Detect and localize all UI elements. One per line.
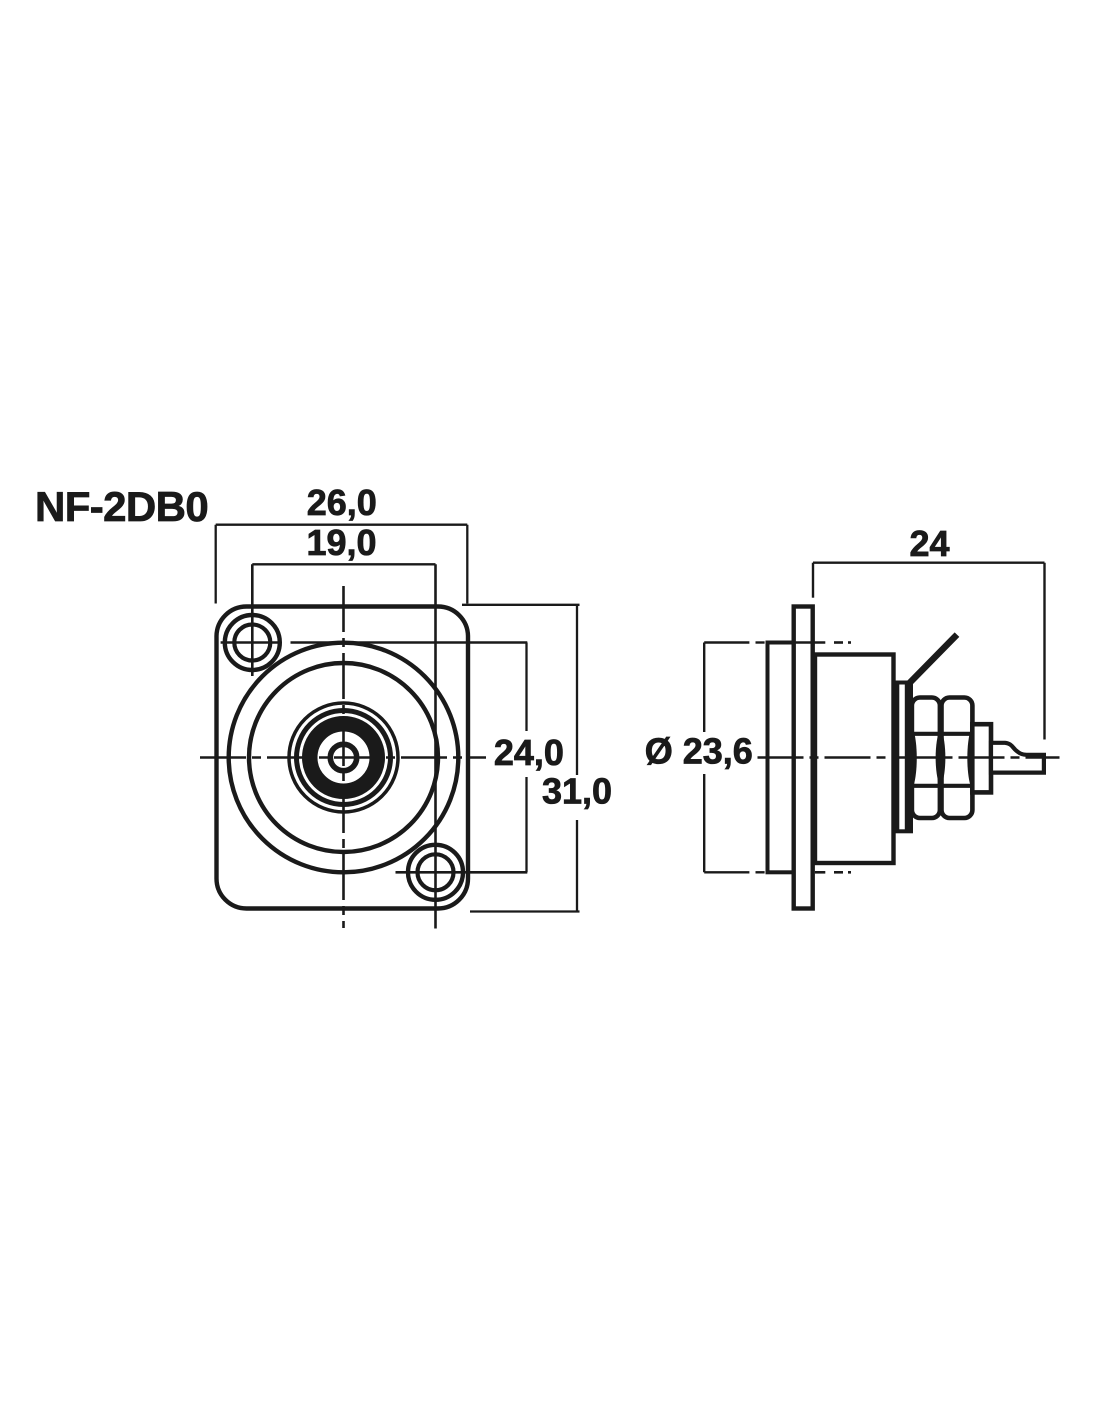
- side view centerline: [758, 756, 1060, 759]
- dimension 24,0 (front view right): [525, 643, 527, 873]
- hole TL crosshair horizontal / extension to 24.0 dim: [221, 641, 282, 644]
- svg-text:31,0: 31,0: [542, 771, 612, 812]
- dimension 19,0: [252, 563, 435, 565]
- vertical centerline: [342, 586, 345, 928]
- hole BR crosshair vertical / 19.0 extension: [434, 564, 437, 928]
- centerlines of front view: [200, 564, 527, 928]
- insulator thin ring: [289, 703, 398, 812]
- mounting hole bottom-right: [408, 845, 463, 900]
- hidden edge lines at D23.6 top/bottom: [794, 643, 851, 873]
- main body: [815, 655, 894, 864]
- serrated washer (solid black): [906, 683, 912, 832]
- svg-text:Ø 23,6: Ø 23,6: [645, 731, 753, 772]
- horizontal centerline: [200, 756, 486, 759]
- dimension 31,0: [462, 605, 580, 912]
- threaded bushing end: [972, 724, 991, 792]
- center pin (side): [991, 743, 1044, 773]
- dimension 24 (side view top): [813, 563, 1045, 740]
- front bezel circle: [249, 663, 438, 852]
- jack body outer circle (D 23.6): [229, 643, 459, 873]
- hex nut column 1: [912, 698, 940, 819]
- hole BR crosshair horizontal / extension to 24.0 dim: [396, 871, 528, 874]
- dimension 26,0: [216, 525, 468, 604]
- svg-text:24: 24: [909, 523, 949, 564]
- svg-text:19,0: 19,0: [306, 522, 376, 563]
- svg-text:24,0: 24,0: [494, 732, 564, 773]
- hole TL crosshair vertical / 19.0 extension: [251, 564, 254, 676]
- hex nut column 2: [942, 698, 973, 819]
- svg-text:26,0: 26,0: [307, 482, 377, 523]
- flange plate (rounded square): [217, 607, 469, 909]
- contact thick ring: [310, 724, 378, 792]
- washer: [897, 683, 911, 832]
- nut waist lenses: [909, 727, 975, 790]
- flange plate side: [794, 607, 813, 909]
- insulator ring 2: [297, 711, 391, 805]
- nut face division lines: [913, 734, 973, 786]
- svg-text:NF-2DB0: NF-2DB0: [35, 483, 208, 530]
- solder lug (diagonal): [909, 635, 957, 684]
- mounting hole top-left: [225, 615, 280, 670]
- dimension D 23,6: [704, 643, 764, 873]
- center pin circle: [330, 744, 356, 770]
- rear cylinder (D 23.6 body): [768, 643, 794, 873]
